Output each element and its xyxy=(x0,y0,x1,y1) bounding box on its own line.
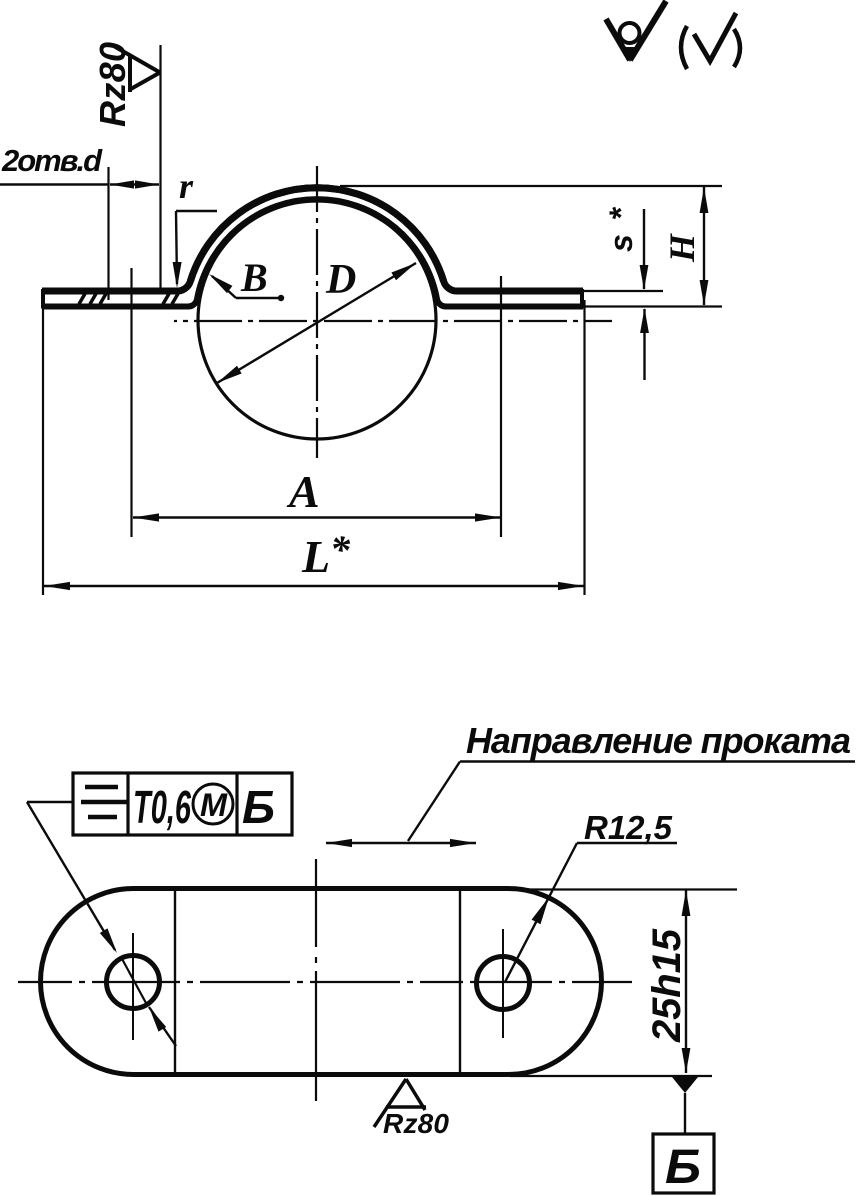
dimension line L* xyxy=(44,585,584,587)
pipe circle D xyxy=(198,201,436,439)
extension line L* right xyxy=(583,300,585,595)
left bend line xyxy=(174,888,176,1075)
leader r xyxy=(176,210,217,212)
svg-text:R12,5: R12,5 xyxy=(584,809,673,846)
dimension line 2otv.d xyxy=(0,183,109,185)
svg-text:T0,6: T0,6 xyxy=(133,781,191,833)
extension line hole right edge / Rz80 surface xyxy=(159,45,161,291)
extension line L* left xyxy=(42,308,44,595)
svg-text:2отв.d: 2отв.d xyxy=(1,143,103,178)
hole diameter line across left hole xyxy=(121,957,146,1003)
roughness mark Rz80 bottom xyxy=(374,1079,426,1127)
extension line hole left edge xyxy=(107,167,109,300)
vertical centreline of plate xyxy=(315,859,317,1101)
frame leader to left hole xyxy=(27,801,73,803)
right bend line xyxy=(459,890,461,1075)
top-right roughness mark with circle xyxy=(606,1,666,60)
strip right end edge xyxy=(580,289,584,309)
svg-text:Б: Б xyxy=(242,781,275,833)
vertical centerline of section xyxy=(316,166,318,458)
R12,5 leader xyxy=(577,842,677,844)
section view: outer profile of clamp (strip top + dome outer) xyxy=(42,188,583,291)
left hole vertical centreline xyxy=(132,933,134,1040)
datum triangle xyxy=(672,1077,698,1093)
tolerance frame xyxy=(73,773,292,835)
extension line hole centre (A left) xyxy=(130,268,132,537)
svg-text:25h15: 25h15 xyxy=(645,928,689,1043)
hatching right zone xyxy=(163,292,179,304)
extension line A right xyxy=(500,276,502,537)
svg-text:M: M xyxy=(200,787,228,823)
svg-text:A: A xyxy=(286,466,320,517)
dimension 25h15 xyxy=(510,888,737,890)
svg-text:r: r xyxy=(179,166,194,206)
datum box xyxy=(653,1134,714,1193)
roughness symbol Rz80 on hole surface xyxy=(112,45,160,92)
strip left end edge xyxy=(41,289,45,309)
diameter line D xyxy=(217,263,416,383)
horizontal centerline of section xyxy=(174,320,612,322)
(v) mark xyxy=(681,26,687,69)
svg-text:B: B xyxy=(240,255,268,300)
right hole xyxy=(477,957,530,1010)
rolling direction double arrow xyxy=(326,842,476,844)
svg-text:Направление проката: Направление проката xyxy=(466,720,851,761)
symmetry symbol in frame xyxy=(81,787,127,817)
circled M in frame xyxy=(193,784,233,824)
plate outline (stadium) xyxy=(40,889,601,1075)
svg-text:Rz80: Rz80 xyxy=(383,1108,449,1139)
svg-text:H: H xyxy=(662,233,702,263)
svg-text:D: D xyxy=(325,257,356,303)
svg-text:L: L xyxy=(301,531,330,582)
dimension H xyxy=(340,185,722,187)
left hole xyxy=(107,956,160,1009)
hatching left zone xyxy=(79,292,107,304)
rolling direction leader xyxy=(460,760,855,762)
svg-text:Rz80: Rz80 xyxy=(92,42,133,127)
leader B xyxy=(236,297,281,299)
section view: inner profile of clamp (strip bottom + dome inner) xyxy=(42,199,583,306)
right hole vertical centreline xyxy=(502,929,504,1038)
horizontal centreline of plate xyxy=(18,981,632,983)
svg-text:Б: Б xyxy=(665,1141,701,1194)
dimension line A xyxy=(133,516,501,518)
dimension s* xyxy=(577,290,663,292)
svg-text:*: * xyxy=(330,527,351,572)
